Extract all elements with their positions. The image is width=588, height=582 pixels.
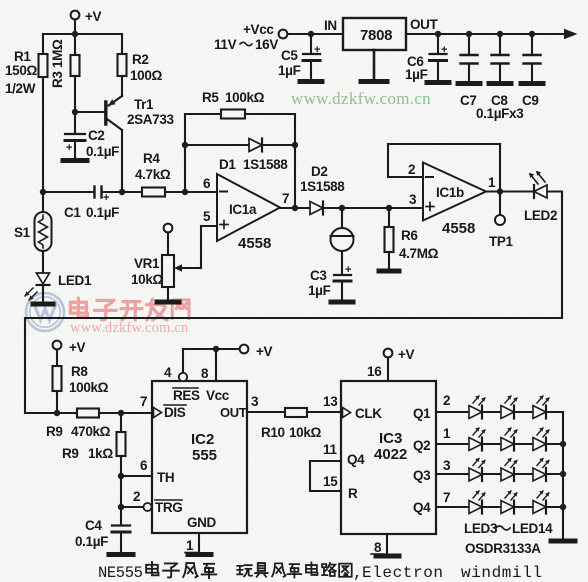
watermark logo W circle (26, 293, 64, 331)
node DIS (118, 410, 124, 416)
resistor R4 (122, 151, 217, 197)
wire loop right-bottom-left (25, 192, 562, 414)
ground C9 (521, 81, 543, 86)
terminal +V R8 (53, 340, 86, 355)
capacitor C7 (460, 34, 478, 108)
ground C7 (458, 81, 480, 86)
capacitor C1 (64, 187, 122, 221)
ground R6 (379, 269, 399, 274)
terminal +Vcc (214, 22, 287, 52)
regulator 7808 (324, 17, 439, 50)
diode D2 1S1588 (300, 164, 423, 215)
ground C3 (331, 300, 353, 305)
wire pin7 out (280, 207, 310, 209)
wire Vcc in (288, 33, 344, 35)
LED row Q1 (436, 396, 563, 419)
node left rail / C1 (40, 189, 46, 195)
resistor R2 (118, 34, 163, 96)
capacitor C2 (65, 112, 119, 159)
resistor R8 (53, 350, 109, 414)
node R8 (54, 410, 60, 416)
node pin6 junction (182, 189, 188, 195)
wire pin1 out (486, 190, 562, 192)
ground LED1 (33, 302, 53, 307)
node C7 (466, 31, 472, 37)
ground LED bus (551, 539, 575, 544)
wire feedback left (184, 114, 186, 192)
wire +V rail (43, 20, 122, 35)
node C6 (435, 31, 441, 37)
op-amp U1a IC1a 4558 (203, 174, 289, 252)
node base (72, 109, 78, 115)
test point TP1 (489, 192, 514, 250)
node C9 (529, 31, 535, 37)
capacitor C6 (405, 34, 447, 82)
wire pins 11-15 tie (310, 461, 341, 491)
resistor R5 (185, 90, 295, 119)
ground C4 (109, 552, 133, 557)
wire IC1b feedback (388, 144, 500, 192)
resistor R3 (50, 34, 80, 112)
ground C8 (489, 81, 511, 86)
node C8 (497, 31, 503, 37)
wire base (75, 111, 104, 113)
capacitor C5 (278, 34, 320, 79)
node C5 (308, 31, 314, 37)
node TRG (118, 504, 124, 510)
node D1 left (182, 142, 188, 148)
LED D1 LED1 (25, 273, 92, 302)
wire Vcc out (406, 29, 578, 39)
ground C5 (300, 79, 322, 84)
wire TRG (121, 506, 143, 508)
capacitor C8 (491, 34, 509, 108)
capacitor C9 (476, 34, 541, 121)
caption title (98, 562, 543, 582)
IC U2 IC2 555 (133, 381, 259, 533)
node collector/C1/R4 (119, 189, 125, 195)
op-amp U1b IC1b 4558 (408, 162, 496, 237)
IC U3 IC3 4022 (323, 364, 451, 534)
node pin7 (292, 205, 298, 211)
wire TH (121, 476, 152, 507)
watermark 电子开发网 red (70, 298, 189, 320)
pin2 TRG circle (144, 503, 152, 511)
capacitor C3 (308, 264, 351, 300)
resistor R10 (247, 408, 341, 440)
wire LED bus (560, 412, 566, 539)
LED row Q3 (436, 458, 563, 481)
diode D1 1S1588 (219, 139, 288, 173)
terminal +V top-left (71, 9, 102, 24)
terminal +V IC3 (384, 347, 415, 381)
node R6 (386, 205, 392, 211)
node TH (118, 473, 124, 479)
wire pin5 (174, 226, 217, 272)
ground C6 (427, 80, 449, 85)
node top rail (72, 31, 78, 37)
node TP1 (497, 188, 503, 194)
resistor R9 1k (62, 413, 126, 476)
microphone BM (331, 208, 354, 274)
wire feedback right (294, 114, 296, 208)
pin4 RES circle (164, 349, 187, 381)
transistor Q1 Tr1 2SA733 (106, 96, 175, 192)
LED row Q4 (436, 491, 563, 514)
terminal +V 555 (240, 344, 273, 359)
resistor R9 470k (46, 409, 152, 440)
ground C2 (63, 158, 87, 163)
capacitor C4 (75, 507, 130, 552)
ground VR1 (157, 300, 179, 305)
node D1 right (292, 142, 298, 148)
ground pin8 IC3 (371, 534, 399, 556)
wire to C1 (43, 191, 94, 193)
resistor R1 (5, 34, 48, 192)
potentiometer VR1 10k (131, 224, 174, 300)
wire input row (25, 412, 77, 414)
ground 7808 (361, 50, 387, 82)
ground pin1 (185, 533, 211, 555)
wire +V 555 (183, 346, 240, 381)
LED LED2 (524, 171, 557, 223)
resistor R6 (385, 208, 439, 269)
label LED3-LED14 (464, 521, 553, 556)
sensor S1 (14, 192, 52, 273)
wire D1 row (185, 144, 295, 146)
LED row Q2 (436, 428, 563, 451)
node mic (339, 205, 345, 211)
